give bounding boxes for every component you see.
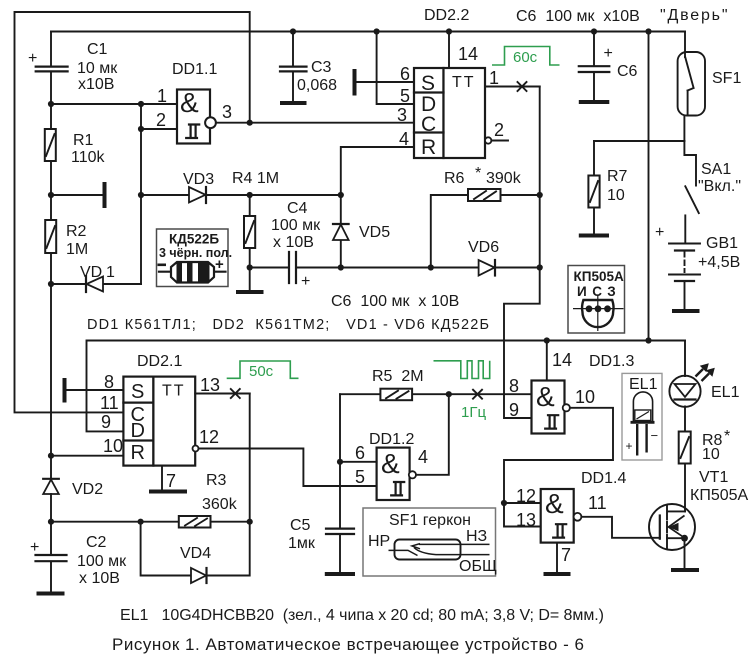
svg-text:х10В: х10В [78,76,114,93]
node R5-right [446,391,452,397]
svg-text:100 мк: 100 мк [77,553,127,570]
svg-text:*: * [475,165,481,182]
diode VD3 [141,171,250,203]
svg-text:DD2.1: DD2.1 [137,353,182,370]
svg-text:−: − [651,428,659,443]
node B3 [138,192,144,198]
wire: DD1.2 pin4 output up to 1Hz node [416,394,449,475]
svg-text:60с: 60с [513,49,538,66]
pin 4 DD2.2 (R) [341,129,414,195]
svg-text:2: 2 [156,110,166,130]
svg-text:*: * [724,428,730,445]
svg-text:C3: C3 [311,59,332,76]
node B2 [48,281,54,287]
svg-text:VD2: VD2 [72,481,103,498]
svg-text:C6: C6 [617,63,638,80]
node A1 [48,101,54,107]
svg-text:&: & [381,448,400,479]
node C2-top [48,519,54,525]
svg-text:ОБЩ: ОБЩ [459,558,497,575]
svg-text:4: 4 [399,129,409,149]
pin 7 DD1.4 ground [557,543,571,572]
sensor plate E2 [353,69,357,96]
node pin6 [337,459,343,465]
ground (VT1 source) [671,568,699,572]
wire: rail to lower rail (battery net) [648,32,650,341]
logic gate DD1.3 [509,353,634,434]
svg-text:EL1: EL1 [629,376,658,393]
info box KD522B diode marking [157,229,233,287]
svg-text:R2: R2 [66,223,87,240]
svg-text:50с: 50с [249,363,274,380]
node VD4-left [138,519,144,525]
wire: R3 row [51,521,250,523]
svg-text:EL1 10G4DHCBB20 (зел., 4 чи: EL1 10G4DHCBB20 (зел., 4 чипа х 20 cd; 8… [120,607,604,624]
svg-text:&: & [536,381,555,412]
svg-text:0,068: 0,068 [297,77,337,94]
wire: C1 bottom to node [50,72,52,104]
label 1Hz green + break mark [461,390,486,421]
svg-text:1: 1 [106,264,115,281]
svg-text:VD4: VD4 [180,545,211,562]
wire: lower rail y340 [87,341,686,432]
sensor plate E3 [63,378,67,403]
resistor R7 10 [588,141,627,233]
logic gate DD1.1 (K561TL1 Schmitt NAND) [156,61,232,144]
ground (C6) [579,100,610,104]
svg-text:"Дверь": "Дверь" [660,7,728,24]
svg-text:3: 3 [397,105,407,125]
wire: to touch sensor plate E1 [51,194,103,196]
node VD6-right [537,264,543,270]
svg-text:R1: R1 [73,132,94,149]
wire: SF1 bottom lead [683,116,685,142]
svg-text:9: 9 [509,400,519,420]
wire: DD1.3 pins 8,9 tie [449,394,532,418]
svg-text:+: + [301,273,310,290]
svg-text:TT: TT [162,383,186,400]
pin 13 DD2.1 output with break mark [195,375,250,398]
wire: DD1.2 pin6 [340,461,377,463]
svg-text:2: 2 [494,120,504,140]
info box KP505A pinout [568,266,625,334]
svg-text:DD1.4: DD1.4 [581,470,626,487]
node rail-GB1 [645,28,651,34]
svg-text:+: + [604,45,613,62]
svg-text:R: R [421,136,436,159]
capacitor C1 [28,41,118,93]
capacitor C3 0.068 [280,32,337,102]
node R4-C4 [247,264,253,270]
svg-text:C5: C5 [290,517,311,534]
svg-text:DD2.2: DD2.2 [424,7,469,24]
wire: C1 top lead [50,32,52,66]
svg-text:R6: R6 [444,170,465,187]
svg-text:С6 100 мк х 10В: С6 100 мк х 10В [331,293,459,310]
ground (DD1.4 pin7) [544,572,571,576]
pin 1 DD2.2 output with break mark [485,68,540,91]
node R6-right [537,192,543,198]
node R4-top [247,192,253,198]
node B1 [48,192,54,198]
svg-text:VD6: VD6 [468,239,499,256]
svg-text:1мк: 1мк [288,535,316,552]
svg-text:8: 8 [509,376,519,396]
ground (C5) [325,572,355,576]
node C-out [247,120,253,126]
info box SF1 reed switch [363,508,497,576]
svg-text:D: D [131,420,145,442]
wire: C4/VD5 bottom row to VD6/R6 branch [341,267,431,269]
svg-text:1Гц: 1Гц [461,404,486,421]
flip-flop DD2.1 (K561TM2) [123,353,195,466]
svg-text:НЗ: НЗ [466,528,487,545]
svg-text:11: 11 [588,493,607,513]
info box EL1 LED drawing [622,373,662,460]
wire: pins 1-2 tie, down to VD3 and VD1 lines [140,104,142,284]
wire: DD1.1 pin 3 output to DD2.2 pin 3 (C) [216,122,414,124]
svg-text:10: 10 [702,446,720,463]
node VD5-bot [338,264,344,270]
svg-text:3: 3 [222,102,232,122]
wire: DD2.1 pin13 down to R3 node [249,394,251,522]
svg-text:10 мк: 10 мк [77,60,118,77]
svg-text:+: + [28,50,37,67]
svg-text:C1: C1 [87,41,108,58]
svg-text:Рисунок 1. Автоматическое встр: Рисунок 1. Автоматическое встречающее ус… [112,635,584,654]
svg-text:SF1: SF1 [712,70,741,87]
svg-text:+: + [30,539,39,556]
svg-text:"Вкл.": "Вкл." [698,178,741,195]
ground (C2) [37,592,65,596]
svg-text:SA1: SA1 [701,161,731,178]
ground (GB1) [672,309,700,313]
resistor R4 1M [232,170,279,290]
svg-text:11: 11 [100,393,119,413]
svg-text:100 мк: 100 мк [271,217,321,234]
node VD5-top [338,192,344,198]
reed switch SF1 [678,52,742,116]
svg-text:GB1: GB1 [706,235,738,252]
logic gate DD1.4 [516,470,626,543]
transistor VT1 KP505A MOSFET [649,469,749,568]
green pulse symbol 60s [492,47,560,67]
svg-text:7: 7 [166,471,176,491]
diode VD5 [333,195,390,268]
svg-text:R4 1M: R4 1M [232,170,279,187]
svg-text:9: 9 [101,412,111,432]
svg-text:КП505А: КП505А [574,269,624,284]
node rail-D [374,28,380,34]
svg-text:5: 5 [400,86,410,106]
switch SA1 [684,141,741,243]
svg-text:110k: 110k [71,149,106,166]
wire: DD2.2 pin1 net down to DD1.3 inputs [504,87,540,395]
svg-text:C4: C4 [287,200,308,217]
svg-text:12: 12 [199,427,219,447]
ground (DD2.1 pin7) [149,490,187,494]
svg-text:S: S [131,381,144,403]
wire: DD1.1 pin 2 [141,128,177,130]
svg-text:1: 1 [157,86,167,106]
svg-text:EL1: EL1 [711,384,740,401]
svg-text:КД522Б: КД522Б [169,232,219,247]
ground (R7) [579,234,609,238]
svg-text:SF1 геркон: SF1 геркон [389,512,471,529]
svg-text:10: 10 [575,387,595,407]
node pin10 [48,453,54,459]
pin 7 DD2.1 ground [162,466,176,491]
wire: R7 top to SF1 bottom [594,140,684,142]
svg-text:1М: 1М [66,241,88,258]
svg-text:ИСЗ: ИСЗ [577,284,621,299]
node A3 [138,126,144,132]
pin 6 DD2.2 (S) [357,64,415,84]
node rail-C6 [591,28,597,34]
LED EL1 [669,341,739,432]
capacitor C2 100mk (polarized) [30,522,127,592]
svg-text:13: 13 [516,510,536,530]
svg-text:C6 100 мк х10В: C6 100 мк х10В [516,8,640,25]
sensor plate E1 [103,182,107,208]
svg-text:DD1.1: DD1.1 [172,61,217,78]
node R3-right [247,519,253,525]
svg-text:1: 1 [489,68,499,88]
node A2 [138,101,144,107]
svg-text:C2: C2 [86,534,107,551]
resistor R1 110k [45,104,106,195]
svg-text:х 10В: х 10В [273,234,314,251]
svg-text:14: 14 [552,350,572,370]
svg-text:R: R [131,442,145,464]
wire: DD1.3 pin10 to DD1.4 pins 12,13 [504,408,613,527]
svg-text:14: 14 [458,44,478,64]
wire: +supply top rail [51,31,685,33]
svg-text:6: 6 [355,443,365,463]
svg-text:R5 2M: R5 2M [372,368,424,385]
diode VD1 [51,264,141,292]
svg-text:КП505А: КП505А [690,487,749,504]
svg-text:DD1.2: DD1.2 [369,431,414,448]
wire: x51 vertical VD1..VD2..C2 [50,284,52,479]
node rail-14b [544,337,550,343]
svg-text:13: 13 [200,375,220,395]
wire: R5 left down to DD1.2 pin6 and C5 [339,394,341,528]
svg-text:10: 10 [103,436,123,456]
green pulse symbol 50s [227,361,299,380]
svg-text:12: 12 [516,486,536,506]
resistor R6 390k [431,165,540,268]
pin 10 DD2.1 (R) [51,436,123,456]
svg-text:VD5: VD5 [359,224,390,241]
ground (C3) [280,101,307,105]
node VD6-left [428,264,434,270]
svg-text:360k: 360k [202,496,238,513]
svg-text:6: 6 [400,64,410,84]
wire: R4/VD3 node to VD5 anode node [250,194,341,196]
svg-text:4: 4 [418,447,428,467]
svg-text:НР: НР [368,533,390,550]
diode VD4 [141,522,250,583]
svg-text:S: S [421,72,435,95]
svg-text:DD1 К561ТЛ1; DD2 К561ТМ2;: DD1 К561ТЛ1; DD2 К561ТМ2; VD1 - VD6 КД52… [87,317,489,333]
green pulse train symbol [434,361,490,379]
svg-text:+: + [626,439,633,453]
svg-text:+: + [655,224,664,241]
capacitor C6 100mk [579,32,638,101]
wire: feedback loop from DD1.1 output around left frame to DD2.1 pin 11 [15,12,250,412]
pin 14 DD2.2 [449,32,478,69]
logic gate DD1.2 [355,431,428,500]
diode VD2 [43,479,103,522]
svg-text:5: 5 [355,467,365,487]
resistor R8 10 [679,428,731,511]
node rail-C3 [290,28,296,34]
svg-text:TT: TT [452,74,476,91]
ground (R4) [236,290,264,294]
svg-text:&: & [180,87,199,118]
svg-text:VT1: VT1 [699,469,728,486]
node rail-led [645,337,651,343]
pin 2 DD2.2 inverted output [485,120,508,144]
svg-text:VD3: VD3 [183,171,214,188]
svg-text:+4,5В: +4,5В [698,254,740,271]
node pin12-13 [501,500,507,506]
resistor R3 360k [179,472,238,528]
svg-text:&: & [545,488,564,519]
svg-text:390k: 390k [486,170,522,187]
svg-text:8: 8 [104,372,114,392]
wire: DD1.4 pin11 to VT1 gate [581,517,659,538]
svg-text:7: 7 [561,545,571,565]
pin 14 DD1.3 [547,341,572,381]
svg-text:VD: VD [80,264,102,281]
svg-text:10: 10 [607,187,625,204]
battery GB1 +4.5V [655,224,740,309]
pin 5 DD2.2 (D) from rail [377,32,414,107]
svg-text:R7: R7 [607,168,628,185]
pin 12 DD2.1 inverted output [193,427,377,486]
capacitor C5 1mk [288,517,354,572]
flip-flop DD2.2 (K561TM2) [414,7,485,159]
diode VD6 [431,239,540,276]
svg-text:х 10В: х 10В [79,570,120,587]
svg-text:R3: R3 [206,472,227,489]
svg-text:+: + [215,256,224,273]
node rail-14 [446,28,452,34]
resistor R5 2M [340,368,449,400]
wire: node row to DD1.1 pin 1 [51,103,177,105]
capacitor C4 100mk (polarized) [250,200,341,290]
svg-text:DD1.3: DD1.3 [589,353,634,370]
svg-text:C: C [421,113,436,136]
pin 8 DD2.1 (S) [67,372,124,392]
resistor R2 1M [45,195,88,284]
wire: rail corner down to SF1 [684,32,686,58]
